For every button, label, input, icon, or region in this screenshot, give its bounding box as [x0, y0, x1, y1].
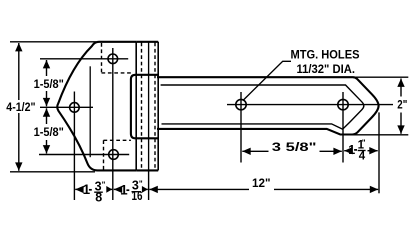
strap holes centerline [227, 104, 393, 106]
svg-text:12": 12" [252, 176, 271, 190]
svg-text:1-5/8": 1-5/8" [34, 77, 64, 91]
svg-text:8: 8 [95, 190, 102, 204]
dimension 1-5/8 bottom arrows [46, 108, 48, 124]
barrel dashed pin line right [154, 43, 156, 171]
dimension 12 arrows [149, 188, 249, 190]
hidden dashed box top [102, 43, 131, 73]
strap outer outline [157, 77, 379, 134]
svg-text:1-5/8": 1-5/8" [34, 125, 64, 139]
svg-text:": " [139, 180, 143, 189]
dimension 3 5/8 arrows [242, 150, 268, 152]
vertical extension strap hole right [342, 92, 344, 163]
leader line [243, 61, 291, 100]
hole bottom plate [109, 150, 119, 160]
hidden dashed box bottom [104, 140, 131, 169]
extension line 2in bottom [351, 134, 408, 136]
hole strap left [236, 99, 246, 109]
vertical line through right holes [112, 48, 114, 200]
vertical extension line pin [148, 172, 150, 201]
barrel dashed pin line left [141, 43, 143, 171]
plate crease line [89, 66, 91, 157]
barrel right edge [157, 42, 159, 171]
plate right edge [135, 42, 137, 171]
svg-text:4-1/2": 4-1/2" [6, 100, 35, 114]
extension line top left [10, 41, 96, 43]
extension line through top hole [40, 58, 128, 60]
vertical extension tip [378, 112, 380, 193]
barrel top edge [136, 41, 158, 43]
left plate outline [57, 42, 136, 171]
svg-text:4: 4 [359, 150, 366, 162]
dimension 2in arrows [400, 79, 402, 97]
svg-text:MTG. HOLES: MTG. HOLES [291, 48, 360, 62]
dimension 4-1/2 arrow top [18, 43, 20, 100]
vertical line through left hole [73, 92, 75, 201]
svg-text:": " [362, 139, 366, 148]
dimension 1-1/4 arrows [344, 150, 348, 152]
svg-text:16: 16 [132, 189, 143, 203]
strap inner rib [161, 85, 364, 129]
svg-text:2": 2" [397, 98, 407, 112]
vertical extension strap hole left [240, 92, 242, 163]
dimension 4-1/2 arrow bottom [18, 113, 20, 171]
hole top plate [108, 54, 118, 64]
dimension 1-3/8 arrows [75, 188, 82, 190]
barrel bottom edge [136, 169, 158, 171]
hole strap right [338, 99, 348, 109]
extension line through left hole [40, 106, 93, 108]
strap curl rounded end [131, 75, 158, 139]
dimension 1-3/16 arrows [114, 188, 120, 190]
svg-text:3 5/8": 3 5/8" [272, 140, 317, 154]
dimension 1-5/8 top arrows [46, 60, 48, 76]
svg-text:": " [102, 180, 106, 189]
svg-text:11/32" DIA.: 11/32" DIA. [297, 62, 356, 76]
barrel vertical solid [148, 42, 150, 171]
hole left plate [70, 103, 80, 113]
extension line bottom left [10, 171, 95, 173]
extension line 2in top [353, 76, 408, 78]
extension line through bottom hole [39, 154, 129, 156]
